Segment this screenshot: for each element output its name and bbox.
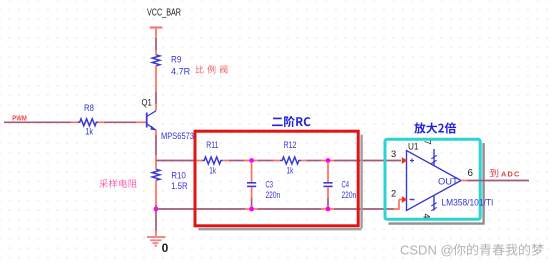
svg-text:4.7R: 4.7R <box>171 66 190 76</box>
svg-text:R11: R11 <box>206 140 218 150</box>
wire: bottom rail to op-amp inverting input <box>156 200 404 210</box>
svg-text:1k: 1k <box>209 166 216 176</box>
svg-text:R8: R8 <box>84 103 94 113</box>
wire: R10 to ground node <box>155 180 157 236</box>
label: sampling resistor (pink) <box>99 179 136 188</box>
op-amp power pin 7 (top) <box>422 140 436 166</box>
svg-text:C4: C4 <box>342 180 350 190</box>
cyan annotation box: amplify x2 <box>385 139 480 219</box>
wire: op-amp output to ADC <box>461 180 529 182</box>
svg-text:0: 0 <box>162 241 169 255</box>
svg-text:R9: R9 <box>171 55 181 65</box>
pin 2 arrow into op-amp <box>402 196 408 203</box>
svg-text:1.5R: 1.5R <box>171 181 188 191</box>
wire: emitter down to sampling node <box>155 130 157 169</box>
junction node at R10 bottom <box>154 207 159 212</box>
svg-text:220n: 220n <box>342 190 357 200</box>
red annotation box: second-order RC <box>195 131 358 226</box>
svg-text:1k: 1k <box>85 127 93 137</box>
transistor Q1 MPS6573 <box>142 98 195 141</box>
svg-text:MPS6573: MPS6573 <box>161 131 194 141</box>
svg-text:VCC_BAR: VCC_BAR <box>147 8 181 19</box>
capacitor C3 <box>247 162 280 209</box>
resistor R10 <box>152 169 188 191</box>
label: proportional valve (red) <box>195 65 227 73</box>
junction node C3 top <box>249 158 254 163</box>
svg-text:220n: 220n <box>266 190 281 200</box>
svg-text:6: 6 <box>468 168 474 179</box>
red annotation box shadow <box>360 135 362 229</box>
svg-text:7: 7 <box>422 140 432 145</box>
resistor R11 <box>202 140 223 176</box>
resistor R9 <box>152 55 190 77</box>
svg-text:LM358/101/TI: LM358/101/TI <box>441 197 493 207</box>
wire: VCC to R9 <box>155 29 157 55</box>
wire: R9 to Q1 collector <box>155 66 157 111</box>
resistor R8 <box>78 103 99 137</box>
svg-text:2: 2 <box>391 188 396 198</box>
svg-text:Q1: Q1 <box>142 98 152 108</box>
pin 3 arrow into op-amp <box>402 157 408 164</box>
svg-text:R12: R12 <box>284 140 297 150</box>
svg-text:3: 3 <box>391 149 396 159</box>
title: second-order RC (blue bold) <box>272 116 311 127</box>
svg-text:ADC: ADC <box>501 170 520 179</box>
svg-text:C3: C3 <box>266 180 274 190</box>
wire: RC filter top row <box>156 160 401 162</box>
svg-text:1k: 1k <box>287 166 294 176</box>
power symbol VCC_BAR <box>147 8 181 28</box>
cyan annotation box shadow <box>482 143 484 225</box>
wire: PWM net to Q1 base <box>4 121 147 123</box>
svg-text:R10: R10 <box>171 171 186 181</box>
resistor R12 <box>280 140 301 176</box>
op-amp U1 LM358 <box>407 142 494 211</box>
watermark CSDN <box>400 243 544 258</box>
net label: to ADC (red) <box>490 169 521 179</box>
junction node C4 top <box>326 158 331 163</box>
svg-text:CSDN @: CSDN @ <box>400 243 454 258</box>
title: amplify 2x (blue bold) <box>414 123 456 134</box>
junction node C3 bottom <box>249 207 254 212</box>
svg-text:PWM: PWM <box>12 113 26 122</box>
capacitor C4 <box>323 162 356 209</box>
ground symbol 0 <box>147 237 169 255</box>
svg-text:OUT: OUT <box>438 176 458 186</box>
svg-text:U1: U1 <box>408 142 419 152</box>
junction node C4 bottom <box>326 207 331 212</box>
svg-text:4: 4 <box>422 214 432 219</box>
op-amp power pin 4 (bottom) <box>422 195 437 218</box>
